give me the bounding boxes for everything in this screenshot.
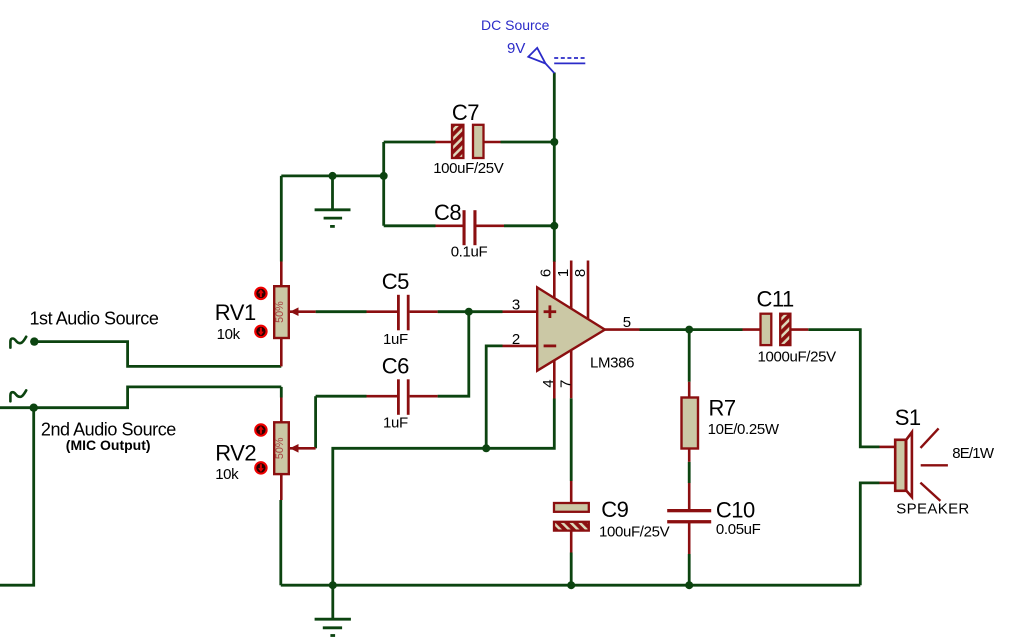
svg-text:C11: C11 [757,287,794,312]
svg-text:50%: 50% [274,301,286,323]
svg-text:0.1uF: 0.1uF [451,244,488,261]
svg-text:(MIC Output): (MIC Output) [66,437,151,453]
svg-text:8: 8 [572,269,589,277]
svg-text:50%: 50% [274,437,286,459]
svg-text:100uF/25V: 100uF/25V [599,524,670,541]
svg-text:5: 5 [623,314,631,331]
svg-text:R7: R7 [709,396,736,421]
svg-text:C6: C6 [382,354,409,379]
svg-text:10E/0.25W: 10E/0.25W [708,421,780,438]
svg-text:7: 7 [557,380,574,388]
svg-text:1st Audio Source: 1st Audio Source [30,309,159,329]
svg-text:LM386: LM386 [590,355,634,372]
svg-text:1uF: 1uF [383,415,408,432]
svg-text:C9: C9 [601,497,628,522]
svg-text:10k: 10k [217,326,241,343]
svg-text:4: 4 [540,379,557,387]
svg-text:S1: S1 [895,405,921,430]
svg-text:RV2: RV2 [215,441,256,466]
svg-text:1uF: 1uF [383,331,408,348]
svg-text:0.05uF: 0.05uF [716,521,761,538]
svg-text:C5: C5 [382,269,409,294]
svg-text:3: 3 [512,297,520,314]
svg-text:100uF/25V: 100uF/25V [433,160,504,177]
svg-text:9V: 9V [507,40,525,57]
svg-text:C7: C7 [452,100,479,125]
svg-text:C8: C8 [434,200,461,225]
svg-text:1: 1 [555,269,572,277]
svg-text:C10: C10 [716,498,755,523]
svg-text:2: 2 [512,331,520,348]
svg-text:10k: 10k [215,466,239,483]
svg-text:8E/1W: 8E/1W [952,445,995,462]
svg-text:6: 6 [537,269,554,277]
svg-text:1000uF/25V: 1000uF/25V [758,349,837,366]
svg-text:RV1: RV1 [215,300,256,325]
svg-text:SPEAKER: SPEAKER [896,501,969,518]
svg-text:DC Source: DC Source [481,17,550,33]
